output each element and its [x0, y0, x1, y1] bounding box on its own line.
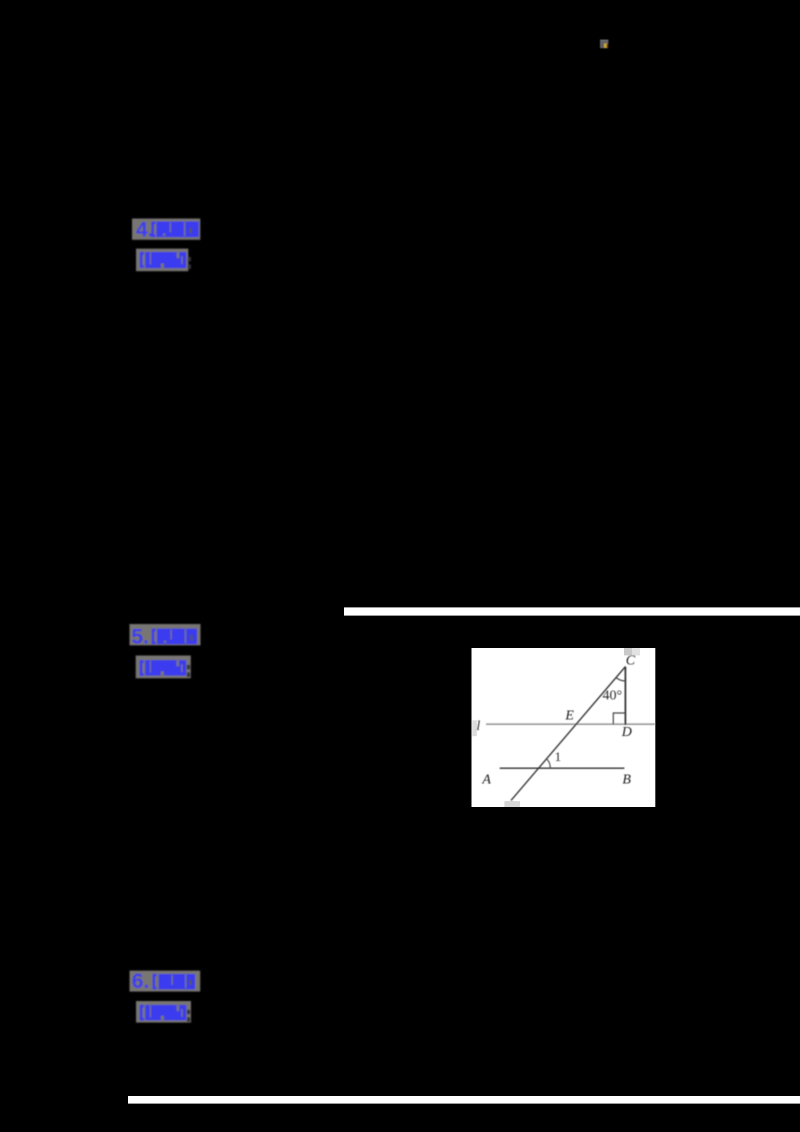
svg-text:B: B — [622, 772, 631, 787]
svg-text:l: l — [476, 719, 480, 734]
line AB — [500, 767, 625, 769]
block 5 slab notches — [171, 630, 172, 640]
block 4 line 1 highlight — [132, 219, 200, 240]
block 5 line 2 highlight — [136, 656, 191, 679]
block 6 line 1 highlight — [130, 971, 201, 992]
angle 1 arc — [547, 759, 551, 768]
line l — [486, 723, 655, 725]
block 6 left bracket — [154, 975, 157, 988]
block 6 line 2 highlight — [136, 1001, 191, 1023]
block 6 line 2 glyph slab — [145, 1005, 186, 1020]
block 5 answer glyph slab — [157, 629, 197, 645]
svg-text:E: E — [564, 709, 574, 724]
block 4 line 2 left bracket — [141, 253, 144, 266]
block 4 answer glyph slab — [156, 222, 198, 238]
segment CD — [624, 667, 626, 725]
svg-text:1: 1 — [555, 749, 562, 764]
svg-text:4.: 4. — [136, 219, 154, 242]
block 6 line 2 slab notches — [150, 1005, 151, 1017]
transversal line through E — [511, 667, 626, 801]
svg-text:6.: 6. — [132, 970, 150, 993]
block 4 line 2 glyph slab — [145, 252, 186, 268]
block 5 line 2 left bracket — [141, 661, 144, 674]
angle arc at C — [616, 678, 625, 682]
block 5 left bracket — [153, 630, 156, 643]
block 4 dark colon after line 2 — [188, 257, 191, 261]
svg-text:C: C — [626, 654, 636, 669]
block 6 dark colon after line 2 — [187, 1010, 190, 1014]
svg-text:D: D — [621, 725, 632, 740]
block 6 slab notches — [172, 975, 173, 985]
svg-text:A: A — [481, 772, 491, 787]
figure white panel — [472, 648, 656, 807]
gray artifact square top (two tone) — [624, 648, 632, 655]
gray artifact at left edge near l label — [472, 720, 477, 736]
block 4 line 2 slab notches — [150, 253, 151, 265]
white divider bar 1 — [344, 607, 800, 615]
svg-text:5.: 5. — [131, 626, 149, 649]
svg-text:40°: 40° — [603, 689, 623, 704]
block 4 left bracket — [153, 223, 156, 236]
block 5 line 1 highlight — [130, 624, 201, 645]
right angle mark at D — [613, 713, 625, 724]
block 4 slab notches — [170, 223, 171, 233]
block 5 line 2 slab notches — [150, 661, 151, 673]
white divider bar 2 (bottom) — [128, 1096, 800, 1104]
broken-image placeholder icon top right — [600, 40, 608, 49]
block 5 dark colon after line 2 — [187, 665, 190, 669]
block 5 line 2 glyph slab — [145, 660, 186, 676]
block 6 line 2 left bracket — [141, 1006, 144, 1019]
block 4 line 2 highlight — [136, 249, 188, 272]
gray artifact bottom near transversal end — [504, 801, 520, 807]
block 6 answer glyph slab — [159, 974, 195, 989]
